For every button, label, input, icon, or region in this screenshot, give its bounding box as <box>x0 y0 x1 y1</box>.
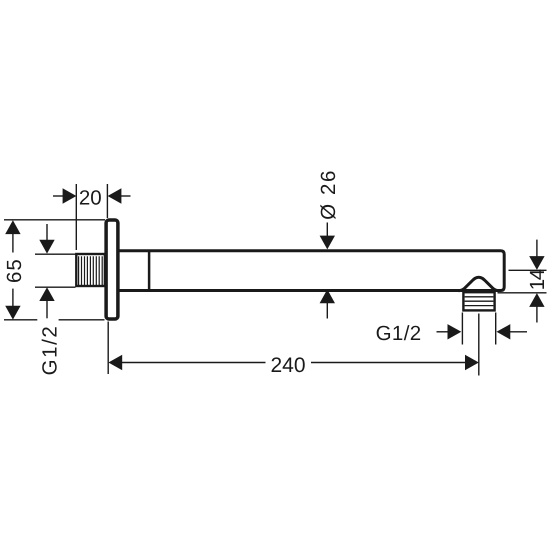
dim 65: top extension line <box>4 219 105 221</box>
dim G1/2 right: left extension line <box>461 313 463 345</box>
dim 20: extension line at thread end <box>75 184 77 250</box>
dim G1/2 right: right extension line <box>495 313 497 345</box>
dim G1/2 left: lower arrow <box>39 287 54 318</box>
dim G1/2 left: upper arrow <box>39 224 54 254</box>
dim Ø26: lower arrow <box>320 289 335 318</box>
svg-text:G1/2: G1/2 <box>376 322 422 345</box>
dim 20: right arrow <box>108 188 131 203</box>
dim 240: left arrow <box>108 355 265 370</box>
wall thread (inlet, hatched) <box>76 254 105 286</box>
dim 240: left extension line (wall face) <box>107 322 109 375</box>
dim 14: lower arrow <box>529 293 544 322</box>
shower arm body <box>119 251 504 291</box>
dim 65: bottom arrow <box>5 289 20 320</box>
svg-text:14: 14 <box>526 269 549 290</box>
dim Ø26: upper arrow <box>320 223 335 250</box>
dim 65: bottom extension line <box>4 319 105 321</box>
dim 65: top arrow <box>5 220 20 252</box>
arm collar divider <box>148 251 151 291</box>
wall flange <box>106 220 118 319</box>
dim 14: bottom extension line <box>498 292 547 294</box>
dim 240: right arrow <box>311 355 479 370</box>
dim 20: extension line at wall face <box>106 184 108 218</box>
svg-text:20: 20 <box>79 187 102 210</box>
thread hatch lines <box>79 256 103 285</box>
outlet thread (hatched) <box>463 292 494 310</box>
svg-text:G1/2: G1/2 <box>38 325 61 376</box>
svg-text:Ø 26: Ø 26 <box>317 169 340 220</box>
dim 240: outlet centre extension line <box>478 314 480 376</box>
dim G1/2 left: thread-bottom extension line <box>35 286 76 288</box>
svg-text:65: 65 <box>3 258 26 283</box>
outlet thread hatch lines <box>465 297 494 306</box>
svg-text:240: 240 <box>270 354 305 377</box>
dim G1/2 right: right arrow <box>497 324 528 339</box>
dim 14: top extension line <box>509 269 547 271</box>
outlet dome <box>459 277 499 291</box>
dim 14: upper arrow <box>529 240 544 270</box>
dim G1/2 right: left arrow <box>437 324 462 339</box>
dim G1/2 left: thread-top extension line <box>35 253 76 255</box>
dim 20: left arrow <box>53 188 76 203</box>
